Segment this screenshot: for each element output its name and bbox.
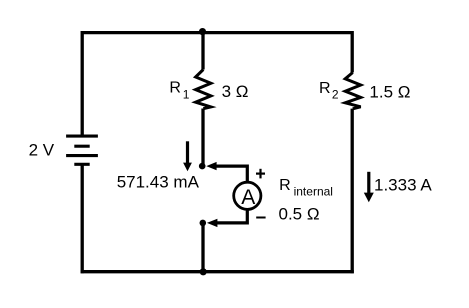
node ammeter - terminal xyxy=(200,220,207,227)
wire bottom xyxy=(81,270,354,273)
wire left top (battery top lead) xyxy=(81,31,84,136)
svg-text:3 Ω: 3 Ω xyxy=(222,82,249,101)
node top junction xyxy=(199,28,206,35)
svg-text:1: 1 xyxy=(183,88,190,102)
svg-text:R: R xyxy=(169,80,181,97)
wire middle branch from ammeter - node to bottom xyxy=(201,225,204,272)
svg-text:0.5 Ω: 0.5 Ω xyxy=(279,204,320,223)
svg-text:2: 2 xyxy=(332,88,339,102)
wire right top (R2 top lead) xyxy=(351,31,354,73)
resistor R2 xyxy=(345,73,361,109)
battery 2 V xyxy=(66,136,98,164)
ammeter + lead wire with arrowhead xyxy=(206,162,247,182)
current arrow 571.43 mA (down) xyxy=(183,141,192,171)
wire right bottom (R2 bottom lead) xyxy=(351,109,354,274)
node ammeter + terminal xyxy=(199,163,206,170)
ammeter - lead wire with arrowhead xyxy=(207,210,247,227)
wire middle branch R1 bottom lead to ammeter + node xyxy=(201,109,204,165)
svg-text:1.5 Ω: 1.5 Ω xyxy=(369,83,410,102)
svg-text:1.333 A: 1.333 A xyxy=(374,176,432,195)
node bottom junction xyxy=(200,268,207,275)
label - polarity xyxy=(256,217,265,219)
current arrow 1.333 A (down) xyxy=(364,172,374,203)
resistor R1 xyxy=(196,70,211,109)
svg-text:R: R xyxy=(319,80,331,97)
wire middle branch R1 top lead xyxy=(201,33,204,70)
svg-text:A: A xyxy=(241,186,255,209)
svg-text:571.43 mA: 571.43 mA xyxy=(117,173,200,192)
ammeter A xyxy=(234,182,261,209)
svg-text:R: R xyxy=(279,177,291,194)
svg-text:internal: internal xyxy=(294,185,333,199)
wire top xyxy=(82,31,352,34)
wire left bottom (battery bottom lead) xyxy=(81,164,84,273)
label + polarity xyxy=(256,169,265,179)
svg-text:2 V: 2 V xyxy=(29,140,55,159)
